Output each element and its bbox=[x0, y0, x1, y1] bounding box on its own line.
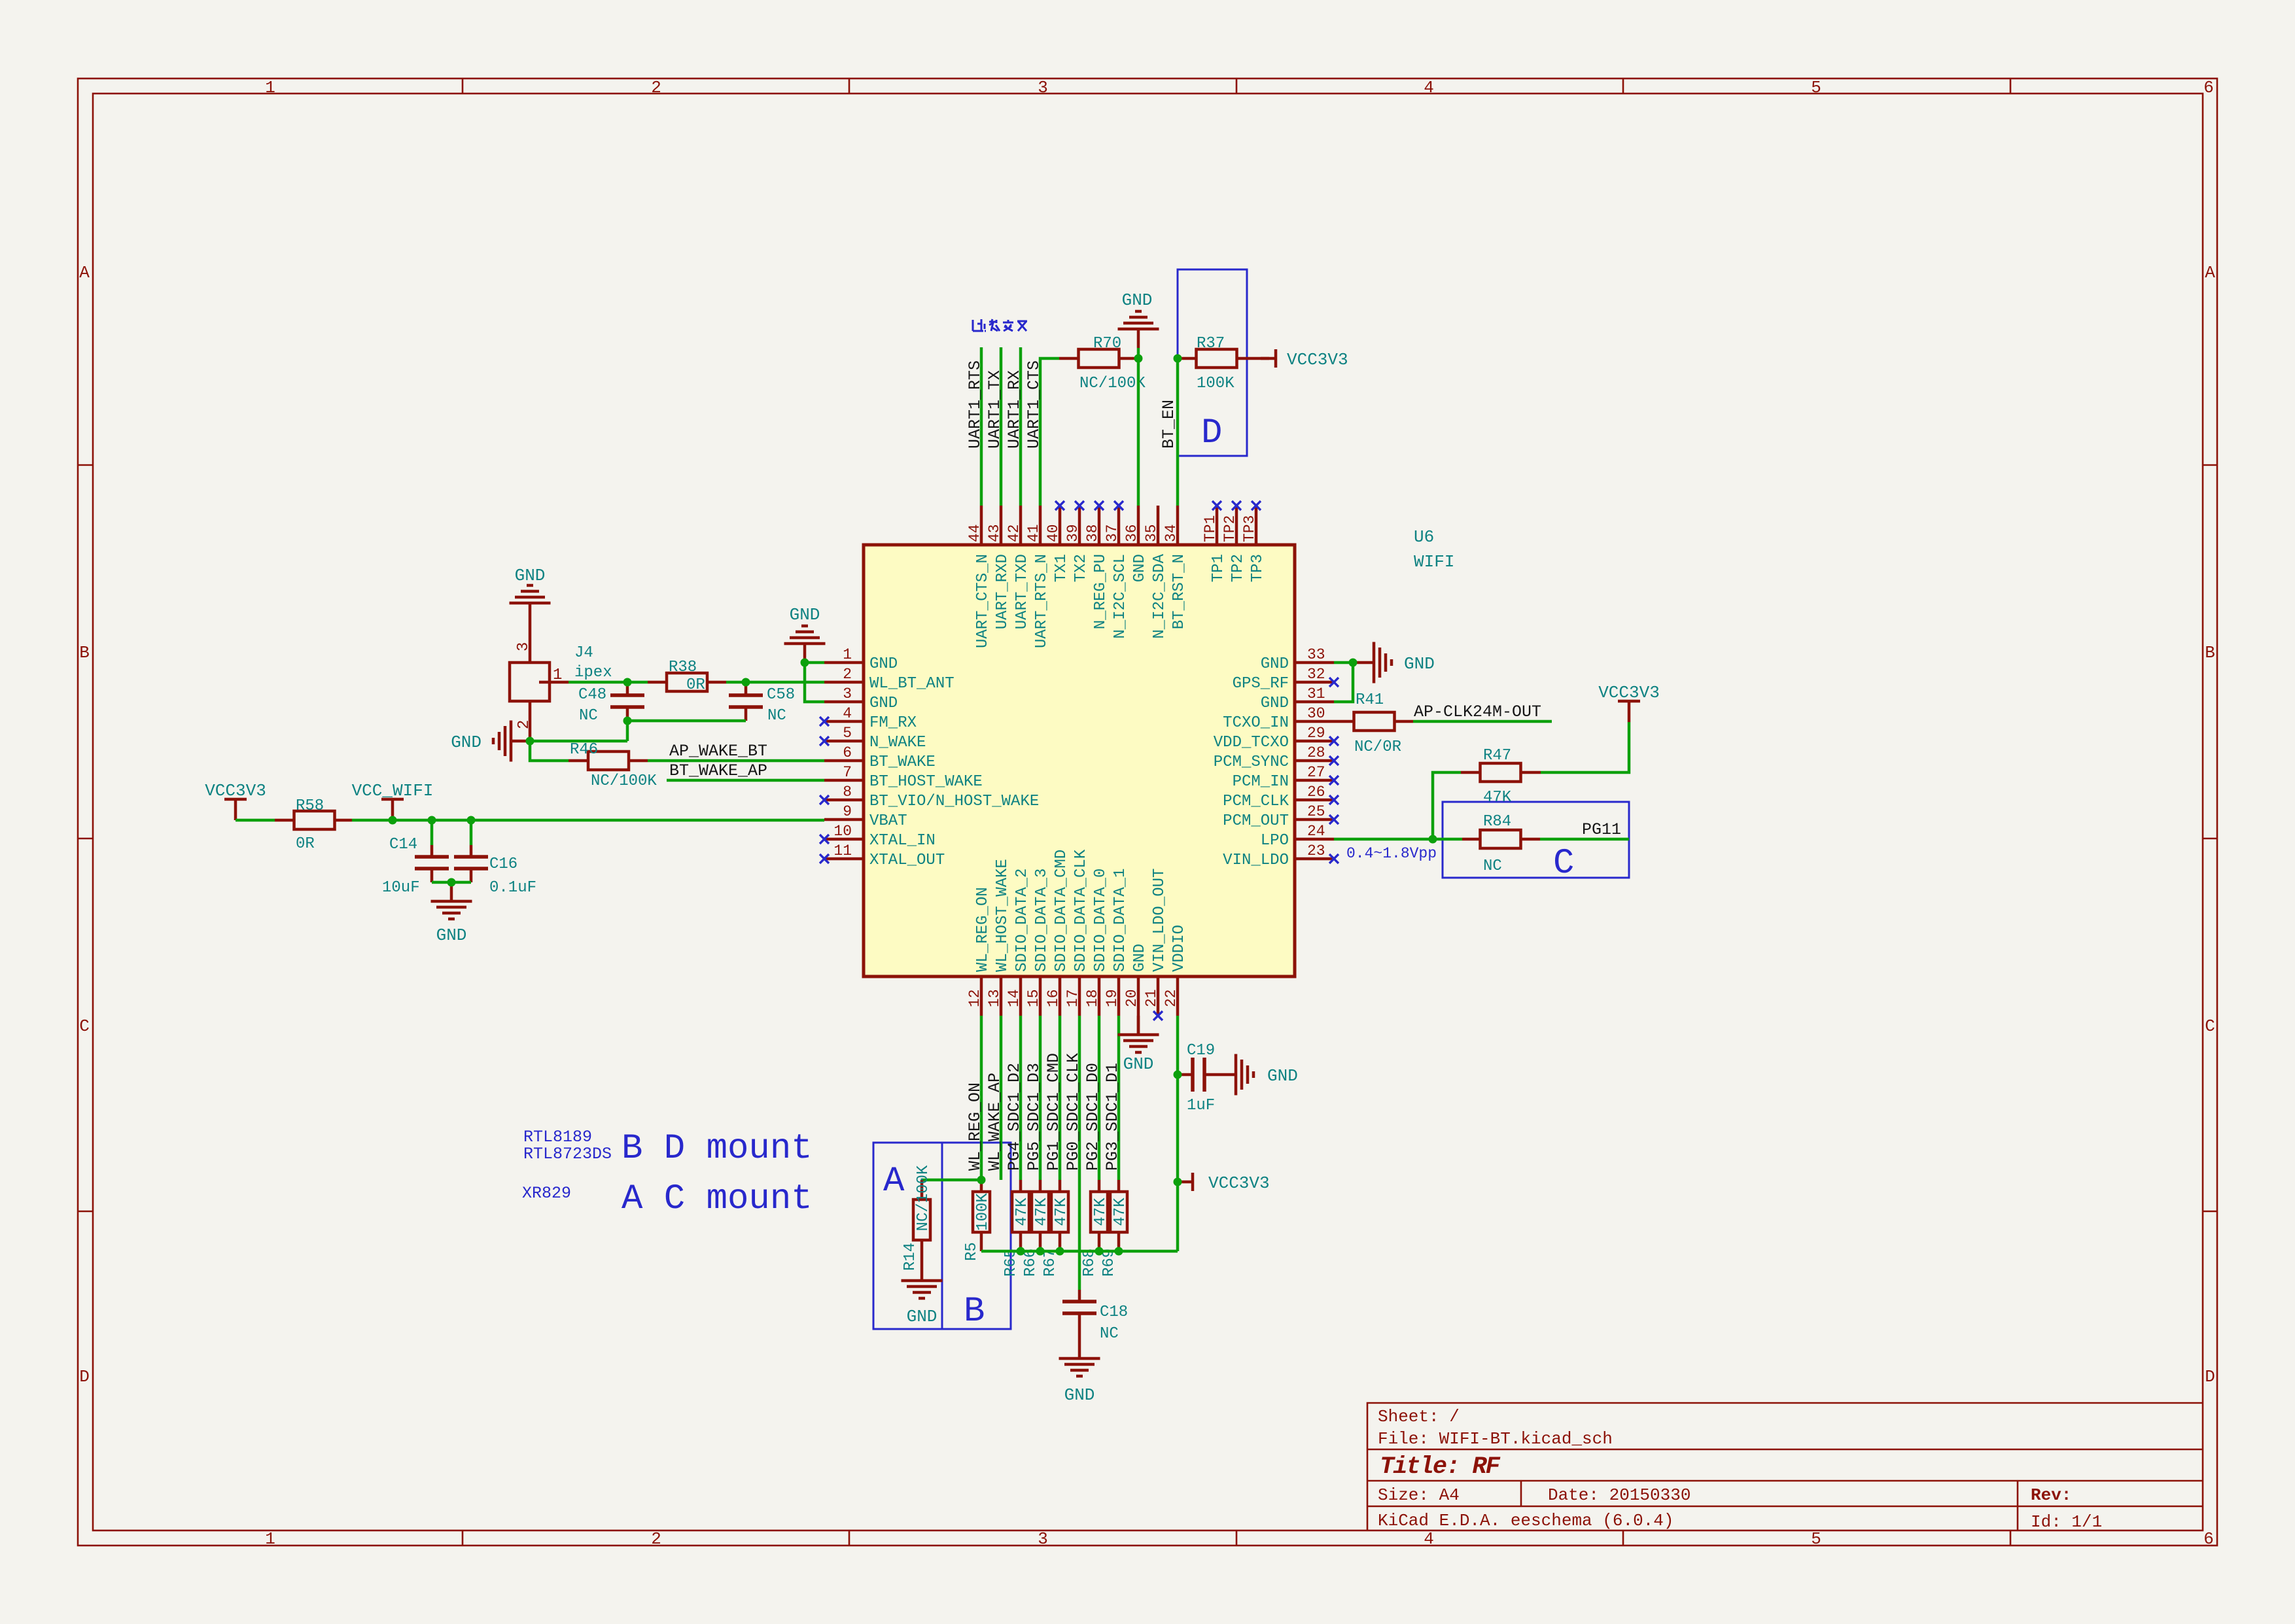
no-connect pin 4 bbox=[820, 717, 829, 726]
wire PG5_SDC1_D3 bbox=[1039, 1016, 1042, 1180]
svg-text:TX2: TX2 bbox=[1072, 554, 1090, 582]
svg-text:PCM_SYNC: PCM_SYNC bbox=[1214, 753, 1289, 771]
pin 17 SDIO_DATA_CLK bbox=[1064, 849, 1090, 1016]
svg-text:2: 2 bbox=[651, 78, 661, 97]
pin 14 SDIO_DATA_2 bbox=[1006, 869, 1031, 1016]
power VCC_WIFI flag bbox=[352, 781, 434, 820]
svg-text:N_I2C_SDA: N_I2C_SDA bbox=[1151, 553, 1168, 638]
svg-text:VCC3V3: VCC3V3 bbox=[1287, 350, 1348, 370]
svg-text:GND: GND bbox=[1131, 944, 1149, 972]
svg-text:20: 20 bbox=[1123, 989, 1140, 1007]
pin 10 XTAL_IN bbox=[824, 823, 936, 850]
svg-text:WL_HOST_WAKE: WL_HOST_WAKE bbox=[994, 859, 1011, 972]
wire AP-CLK24M-OUT bbox=[1413, 720, 1552, 723]
pin 27 PCM_IN bbox=[1233, 764, 1334, 791]
resistor R68 47K bbox=[1081, 1180, 1110, 1277]
no-connect pin 11 bbox=[820, 854, 829, 863]
svg-text:25: 25 bbox=[1307, 803, 1325, 820]
pin 19 SDIO_DATA_1 bbox=[1104, 869, 1129, 1016]
svg-text:PG0_SDC1_CLK: PG0_SDC1_CLK bbox=[1064, 1053, 1083, 1171]
pin TP1 bbox=[1202, 506, 1227, 582]
svg-text:2: 2 bbox=[516, 720, 533, 729]
svg-text:2: 2 bbox=[651, 1529, 661, 1549]
svg-text:GND: GND bbox=[790, 605, 820, 625]
junction at 690,1349 bbox=[447, 878, 456, 887]
svg-text:Title: RF: Title: RF bbox=[1380, 1453, 1501, 1481]
junction at 810,1133 bbox=[526, 737, 534, 746]
capacitor C16 0.1uF bbox=[454, 845, 536, 897]
wire UART1_CTS to pin 41 and R70 bbox=[1040, 358, 1059, 506]
pin 12 WL_REG_ON bbox=[966, 887, 992, 1016]
svg-text:Date: 20150330: Date: 20150330 bbox=[1548, 1485, 1691, 1505]
svg-text:A: A bbox=[2205, 263, 2215, 283]
svg-text:0R: 0R bbox=[686, 676, 705, 694]
no-connect pin 26 bbox=[1329, 795, 1339, 804]
wire C14-C16 bottoms bbox=[432, 881, 471, 884]
svg-text:C: C bbox=[79, 1016, 90, 1036]
svg-text:16: 16 bbox=[1045, 989, 1062, 1007]
svg-text:UART1_TX: UART1_TX bbox=[985, 370, 1004, 449]
svg-text:GND: GND bbox=[436, 925, 467, 945]
wire VBAT rail to pin 9 bbox=[352, 819, 824, 822]
svg-text:Id: 1/1: Id: 1/1 bbox=[2031, 1512, 2102, 1532]
svg-text:R41: R41 bbox=[1356, 691, 1384, 709]
pin 36 GND bbox=[1123, 506, 1149, 582]
svg-text:38: 38 bbox=[1084, 524, 1101, 542]
svg-text:A: A bbox=[883, 1162, 905, 1201]
resistor R66 47K bbox=[1022, 1180, 1051, 1277]
svg-text:WL_BT_ANT: WL_BT_ANT bbox=[869, 675, 955, 693]
svg-text:TX1: TX1 bbox=[1053, 554, 1070, 582]
wire R84 to PG11 bbox=[1540, 838, 1629, 841]
svg-text:R38: R38 bbox=[669, 659, 697, 676]
resistor R47 47K bbox=[1461, 747, 1541, 806]
pin 15 SDIO_DATA_3 bbox=[1025, 869, 1051, 1016]
svg-text:8: 8 bbox=[843, 784, 852, 801]
svg-text:47K: 47K bbox=[1483, 789, 1512, 806]
svg-text:100K: 100K bbox=[974, 1193, 992, 1231]
J4 pin 1 bbox=[539, 666, 569, 684]
ground GND left of J4 pin 2 bbox=[451, 721, 530, 762]
capacitor C18 NC bbox=[1062, 1290, 1128, 1343]
ground GND below C14/C16 bbox=[431, 882, 472, 945]
svg-text:WL_REG_ON: WL_REG_ON bbox=[966, 1082, 985, 1171]
no-connect pin TP3 bbox=[1252, 501, 1261, 510]
svg-text:47K: 47K bbox=[1013, 1198, 1031, 1226]
pin 16 SDIO_DATA_CMD bbox=[1045, 850, 1070, 1016]
svg-text:KiCad E.D.A. eeschema (6.0.4): KiCad E.D.A. eeschema (6.0.4) bbox=[1378, 1511, 1673, 1530]
svg-text:5: 5 bbox=[843, 725, 852, 742]
svg-text:47K: 47K bbox=[1053, 1198, 1070, 1226]
svg-text:UART_CTS_N: UART_CTS_N bbox=[974, 554, 992, 648]
svg-text:3: 3 bbox=[1038, 1529, 1048, 1549]
svg-text:R58: R58 bbox=[296, 797, 324, 815]
svg-text:C58: C58 bbox=[767, 686, 795, 704]
svg-text:C16: C16 bbox=[489, 855, 517, 873]
svg-text:AP-CLK24M-OUT: AP-CLK24M-OUT bbox=[1414, 702, 1541, 721]
resistor R70 bbox=[1059, 335, 1146, 392]
svg-text:14: 14 bbox=[1006, 989, 1023, 1007]
svg-text:6: 6 bbox=[2203, 78, 2214, 97]
pin 35 N_I2C_SDA bbox=[1143, 506, 1168, 639]
junction at 660,1254 bbox=[428, 816, 436, 825]
svg-text:R5: R5 bbox=[963, 1242, 981, 1261]
power VCC3V3 right of pin 22 wire bbox=[1178, 1173, 1270, 1193]
svg-text:29: 29 bbox=[1307, 725, 1325, 742]
svg-text:ipex: ipex bbox=[574, 664, 612, 682]
pin 18 SDIO_DATA_0 bbox=[1084, 869, 1110, 1016]
wire R47 left to LPO net bbox=[1433, 772, 1461, 839]
wire AP_WAKE_BT to pin 6 bbox=[648, 759, 824, 763]
svg-text:47K: 47K bbox=[1092, 1198, 1110, 1226]
resistor R14 NC/100K bbox=[902, 1165, 932, 1271]
junction at 720,1254 bbox=[467, 816, 476, 825]
svg-text:C: C bbox=[1553, 844, 1574, 884]
svg-text:SDIO_DATA_1: SDIO_DATA_1 bbox=[1112, 869, 1129, 972]
svg-text:GND: GND bbox=[1064, 1385, 1095, 1405]
svg-text:WL_WAKE_AP: WL_WAKE_AP bbox=[985, 1073, 1004, 1171]
wire GND to pin 3 bbox=[805, 663, 824, 702]
resistor R37 bbox=[1178, 335, 1269, 392]
svg-text:D: D bbox=[2205, 1367, 2215, 1387]
pin 43 UART_RXD bbox=[986, 506, 1011, 629]
pin 30 TCXO_IN bbox=[1223, 705, 1334, 732]
svg-text:PG4_SDC1_D2: PG4_SDC1_D2 bbox=[1005, 1063, 1024, 1171]
no-connect pin 38 bbox=[1095, 501, 1104, 510]
power VCC3V3 above R47 bbox=[1598, 683, 1660, 722]
svg-text:21: 21 bbox=[1143, 989, 1160, 1007]
svg-text:A C mount: A C mount bbox=[622, 1179, 813, 1219]
svg-text:Size: A4: Size: A4 bbox=[1378, 1485, 1460, 1505]
pin 32 GPS_RF bbox=[1233, 666, 1334, 693]
pin 31 GND bbox=[1261, 685, 1334, 712]
svg-text:15: 15 bbox=[1025, 989, 1042, 1007]
wire UART1_RX to pin 42 bbox=[1019, 347, 1023, 506]
svg-text:BT_RST_N: BT_RST_N bbox=[1170, 554, 1188, 629]
svg-text:C14: C14 bbox=[389, 836, 417, 854]
wire GND down to R46 bbox=[530, 741, 569, 761]
svg-text:BT_HOST_WAKE: BT_HOST_WAKE bbox=[869, 773, 983, 791]
svg-text:SDIO_DATA_CLK: SDIO_DATA_CLK bbox=[1072, 849, 1090, 972]
pin 4 FM_RX bbox=[824, 705, 917, 732]
svg-text:47K: 47K bbox=[1112, 1198, 1129, 1226]
svg-text:43: 43 bbox=[986, 524, 1003, 542]
wire WL_REG_ON pin 12 bbox=[980, 1016, 983, 1180]
svg-text:GND: GND bbox=[1267, 1066, 1298, 1086]
junction at 1620,1913 bbox=[1056, 1247, 1064, 1256]
svg-text:D: D bbox=[79, 1367, 90, 1387]
svg-text:NC/100K: NC/100K bbox=[591, 772, 657, 790]
pin 23 VIN_LDO bbox=[1223, 842, 1334, 869]
junction at 1680,1913 bbox=[1095, 1247, 1104, 1256]
pin 2 WL_BT_ANT bbox=[824, 666, 955, 693]
capacitor C19 1uF bbox=[1178, 1042, 1217, 1114]
svg-text:TP2: TP2 bbox=[1229, 554, 1247, 582]
pin 26 PCM_CLK bbox=[1223, 784, 1334, 810]
svg-text:R47: R47 bbox=[1483, 747, 1511, 765]
svg-text:1: 1 bbox=[265, 1529, 275, 1549]
svg-text:3: 3 bbox=[843, 685, 852, 702]
mount option box B bbox=[942, 1143, 1011, 1332]
svg-text:NC/100K: NC/100K bbox=[1079, 375, 1146, 392]
svg-text:B: B bbox=[2205, 643, 2215, 663]
svg-text:N_I2C_SCL: N_I2C_SCL bbox=[1112, 554, 1129, 639]
svg-text:VDDIO: VDDIO bbox=[1170, 925, 1188, 972]
wire VCC3V3 down to R47 bbox=[1541, 722, 1629, 772]
wire VDDIO pin 22 bbox=[1176, 1016, 1180, 1251]
resistor R5 100K bbox=[963, 1180, 992, 1261]
svg-text:PCM_IN: PCM_IN bbox=[1233, 773, 1289, 791]
svg-text:UART_RTS_N: UART_RTS_N bbox=[1033, 554, 1051, 648]
svg-text:23: 23 bbox=[1307, 842, 1325, 859]
junction at 1710,1913 bbox=[1115, 1247, 1123, 1256]
wire UART1_TX to pin 43 bbox=[1000, 347, 1003, 506]
svg-text:6: 6 bbox=[843, 744, 852, 761]
IC U6 WIFI module body bbox=[864, 545, 1295, 976]
svg-text:BT_WAKE: BT_WAKE bbox=[869, 753, 936, 771]
pin 8 BT_VIO/N_HOST_WAKE bbox=[824, 784, 1039, 810]
svg-text:NC/0R: NC/0R bbox=[1354, 738, 1401, 756]
svg-text:40: 40 bbox=[1045, 524, 1062, 542]
svg-text:3: 3 bbox=[515, 642, 533, 651]
svg-text:R46: R46 bbox=[570, 741, 598, 759]
svg-text:NC: NC bbox=[767, 707, 786, 725]
pin 6 BT_WAKE bbox=[824, 744, 936, 771]
svg-text:47K: 47K bbox=[1033, 1198, 1051, 1226]
svg-text:PCM_CLK: PCM_CLK bbox=[1223, 793, 1289, 810]
svg-text:GND: GND bbox=[869, 695, 898, 712]
svg-text:GND: GND bbox=[515, 566, 546, 585]
pin 28 PCM_SYNC bbox=[1214, 744, 1334, 771]
svg-text:4: 4 bbox=[1424, 1529, 1434, 1549]
svg-text:GND: GND bbox=[1261, 695, 1289, 712]
no-connect pin 23 bbox=[1329, 854, 1339, 863]
pin 20 GND bbox=[1123, 944, 1149, 1016]
svg-text:VCC3V3: VCC3V3 bbox=[1208, 1173, 1270, 1193]
svg-text:100K: 100K bbox=[1197, 375, 1235, 392]
svg-text:UART1_RTS: UART1_RTS bbox=[966, 360, 985, 449]
svg-text:3: 3 bbox=[1038, 78, 1048, 97]
svg-text:LPO: LPO bbox=[1261, 832, 1289, 850]
wire C48 bottom to C58 bottom bbox=[627, 719, 746, 723]
resistor R67 47K bbox=[1042, 1180, 1070, 1277]
no-connect pin 32 bbox=[1329, 678, 1339, 687]
ground GND right of pin 33 bbox=[1355, 642, 1435, 683]
ground GND above pin 1 bbox=[784, 605, 826, 663]
no-connect pin 25 bbox=[1329, 815, 1339, 824]
resistor R69 47K bbox=[1100, 1180, 1129, 1277]
pin 13 WL_HOST_WAKE bbox=[986, 859, 1011, 1016]
svg-text:BT_EN: BT_EN bbox=[1159, 400, 1178, 449]
svg-text:GND: GND bbox=[907, 1307, 937, 1326]
svg-text:UART_TXD: UART_TXD bbox=[1013, 554, 1031, 629]
svg-text:VCC_WIFI: VCC_WIFI bbox=[352, 781, 434, 801]
svg-text:22: 22 bbox=[1163, 989, 1180, 1007]
svg-text:26: 26 bbox=[1307, 784, 1325, 801]
svg-text:VIN_LDO: VIN_LDO bbox=[1223, 852, 1289, 869]
svg-text:N_WAKE: N_WAKE bbox=[869, 734, 926, 752]
svg-text:NC: NC bbox=[579, 707, 598, 725]
pin 41 UART_RTS_N bbox=[1025, 506, 1051, 648]
svg-text:VCC3V3: VCC3V3 bbox=[205, 781, 266, 801]
junction at 1740,548 bbox=[1134, 354, 1143, 363]
svg-text:0.4~1.8Vpp: 0.4~1.8Vpp bbox=[1346, 845, 1437, 862]
svg-text:TP1: TP1 bbox=[1202, 515, 1219, 542]
ground GND right of C19 bbox=[1217, 1054, 1298, 1096]
pin 34 BT_RST_N bbox=[1163, 506, 1188, 629]
resistor R41 bbox=[1334, 691, 1413, 756]
no-connect pin 10 bbox=[820, 835, 829, 844]
wire C14 up bbox=[430, 820, 434, 845]
svg-text:GND: GND bbox=[1123, 1054, 1154, 1074]
svg-text:24: 24 bbox=[1307, 823, 1325, 840]
svg-text:A: A bbox=[79, 263, 90, 283]
wire R14 to R5 top bbox=[922, 1179, 981, 1182]
svg-text:13: 13 bbox=[986, 989, 1003, 1007]
svg-text:TCXO_IN: TCXO_IN bbox=[1223, 714, 1289, 732]
svg-text:WL_REG_ON: WL_REG_ON bbox=[974, 887, 992, 972]
svg-text:27: 27 bbox=[1307, 764, 1325, 781]
no-connect pin 40 bbox=[1055, 501, 1064, 510]
svg-text:J4: J4 bbox=[574, 644, 593, 662]
junction at 959,1102 bbox=[623, 717, 632, 725]
svg-text:30: 30 bbox=[1307, 705, 1325, 722]
svg-text:C48: C48 bbox=[578, 686, 606, 704]
svg-text:Sheet: /: Sheet: / bbox=[1378, 1407, 1460, 1426]
wire pin 36 to GND and R70 bbox=[1137, 348, 1140, 506]
svg-text:7: 7 bbox=[843, 764, 852, 781]
svg-text:NC: NC bbox=[1100, 1325, 1119, 1343]
junction at 1590,1913 bbox=[1036, 1247, 1045, 1256]
capacitor C58 bbox=[729, 682, 795, 725]
svg-text:35: 35 bbox=[1143, 524, 1160, 542]
svg-text:GPS_RF: GPS_RF bbox=[1233, 675, 1289, 693]
no-connect pin 39 bbox=[1075, 501, 1084, 510]
ground GND below C18 bbox=[1059, 1339, 1100, 1405]
svg-text:BT_WAKE_AP: BT_WAKE_AP bbox=[669, 761, 767, 780]
pin TP2 bbox=[1221, 506, 1247, 582]
svg-text:TP1: TP1 bbox=[1210, 554, 1227, 582]
mount option box A bbox=[873, 1143, 942, 1329]
junction at 959,1043 bbox=[623, 678, 632, 687]
no-connect pin 28 bbox=[1329, 756, 1339, 765]
pin 42 UART_TXD bbox=[1006, 506, 1031, 629]
title block bbox=[1367, 1403, 2203, 1530]
svg-text:41: 41 bbox=[1025, 524, 1042, 542]
pin 25 PCM_OUT bbox=[1223, 803, 1334, 830]
svg-text:AP_WAKE_BT: AP_WAKE_BT bbox=[669, 742, 767, 761]
svg-text:UART1_CTS: UART1_CTS bbox=[1025, 360, 1043, 449]
svg-text:Rev:: Rev: bbox=[2031, 1485, 2071, 1505]
pin 7 BT_HOST_WAKE bbox=[824, 764, 983, 791]
svg-text:32: 32 bbox=[1307, 666, 1325, 683]
svg-text:12: 12 bbox=[966, 989, 983, 1007]
svg-text:VIN_LDO_OUT: VIN_LDO_OUT bbox=[1151, 869, 1168, 972]
no-connect pin 8 bbox=[820, 795, 829, 804]
svg-text:0R: 0R bbox=[296, 835, 315, 853]
ground GND pin 20 bbox=[1118, 1016, 1159, 1074]
svg-text:FM_RX: FM_RX bbox=[869, 714, 917, 732]
svg-text:R37: R37 bbox=[1197, 335, 1225, 353]
svg-text:C19: C19 bbox=[1187, 1042, 1215, 1060]
resistor R65 47K bbox=[1002, 1180, 1031, 1277]
pin 29 VDD_TCXO bbox=[1214, 725, 1334, 752]
pin 11 XTAL_OUT bbox=[824, 842, 945, 869]
svg-text:PCM_OUT: PCM_OUT bbox=[1223, 812, 1289, 830]
connector J4 ipex bbox=[510, 644, 612, 701]
wire BT_WAKE_AP to pin 7 bbox=[667, 779, 824, 782]
svg-text:TP3: TP3 bbox=[1249, 554, 1267, 582]
svg-text:TP2: TP2 bbox=[1221, 515, 1238, 542]
wire J4 pin1 to antenna net bbox=[569, 681, 648, 684]
wire C16 up bbox=[470, 820, 473, 845]
ground GND above pin 36 bbox=[1118, 311, 1159, 348]
svg-text:GND: GND bbox=[1131, 554, 1149, 582]
svg-text:GND: GND bbox=[1261, 655, 1289, 673]
svg-text:18: 18 bbox=[1084, 989, 1101, 1007]
no-connect pin 29 bbox=[1329, 736, 1339, 746]
wire PG1_SDC1_CMD bbox=[1059, 1016, 1062, 1180]
svg-text:C: C bbox=[2205, 1016, 2215, 1036]
capacitor C48 bbox=[578, 682, 644, 725]
svg-text:1: 1 bbox=[553, 666, 562, 684]
mount option box D bbox=[1178, 269, 1247, 456]
wire C48 bottom down to GND net bbox=[626, 721, 629, 741]
pin 24 LPO bbox=[1261, 823, 1334, 850]
svg-text:R70: R70 bbox=[1093, 335, 1121, 353]
svg-text:6: 6 bbox=[2203, 1529, 2214, 1549]
pin 39 TX2 bbox=[1064, 506, 1090, 582]
svg-text:SDIO_DATA_3: SDIO_DATA_3 bbox=[1033, 869, 1051, 972]
svg-text:TP3: TP3 bbox=[1241, 515, 1258, 542]
wire VCC3V3 to R58 bbox=[236, 819, 275, 822]
svg-text:R84: R84 bbox=[1483, 813, 1511, 831]
svg-text:VCC3V3: VCC3V3 bbox=[1598, 683, 1660, 702]
wire UART1_RTS to pin 44 bbox=[980, 347, 983, 506]
wire PG0_SDC1_CLK pin 17 down to C18 bbox=[1078, 1016, 1081, 1290]
svg-text:B: B bbox=[964, 1292, 985, 1332]
svg-text:PG1_SDC1_CMD: PG1_SDC1_CMD bbox=[1044, 1053, 1063, 1171]
wire GND to J4 pin2 and C48 bbox=[530, 740, 627, 743]
ground GND below R14 bbox=[902, 1262, 943, 1326]
no-connect pin 27 bbox=[1329, 776, 1339, 785]
svg-text:11: 11 bbox=[833, 842, 852, 859]
svg-text:XTAL_IN: XTAL_IN bbox=[869, 832, 936, 850]
svg-text:10uF: 10uF bbox=[382, 879, 420, 897]
svg-text:9: 9 bbox=[843, 803, 852, 820]
wire GND to pin 1 bbox=[805, 661, 824, 665]
svg-text:VBAT: VBAT bbox=[869, 812, 907, 830]
svg-text:File: WIFI-BT.kicad_sch: File: WIFI-BT.kicad_sch bbox=[1378, 1429, 1613, 1449]
svg-text:BT_VIO/N_HOST_WAKE: BT_VIO/N_HOST_WAKE bbox=[869, 793, 1039, 810]
junction at 1230,1013 bbox=[801, 659, 809, 667]
power VCC3V3 at R58 bbox=[205, 781, 266, 820]
svg-text:31: 31 bbox=[1307, 685, 1325, 702]
pin 3 GND bbox=[824, 685, 898, 712]
resistor R38 bbox=[648, 659, 726, 694]
svg-text:GND: GND bbox=[451, 733, 482, 752]
junction at 1140,1043 bbox=[742, 678, 750, 687]
svg-text:UART_RXD: UART_RXD bbox=[994, 554, 1011, 629]
svg-text:PG2_SDC1_D0: PG2_SDC1_D0 bbox=[1083, 1063, 1102, 1171]
resistor R46 bbox=[569, 741, 657, 790]
ground GND above J4 pin 3 bbox=[510, 566, 551, 663]
power VCC3V3 right of R37 bbox=[1261, 349, 1348, 370]
wire PG2_SDC1_D0 bbox=[1098, 1016, 1101, 1180]
svg-text:WIFI: WIFI bbox=[1414, 552, 1454, 572]
svg-text:RTL8723DS: RTL8723DS bbox=[523, 1145, 612, 1164]
svg-text:VDD_TCXO: VDD_TCXO bbox=[1214, 734, 1289, 752]
